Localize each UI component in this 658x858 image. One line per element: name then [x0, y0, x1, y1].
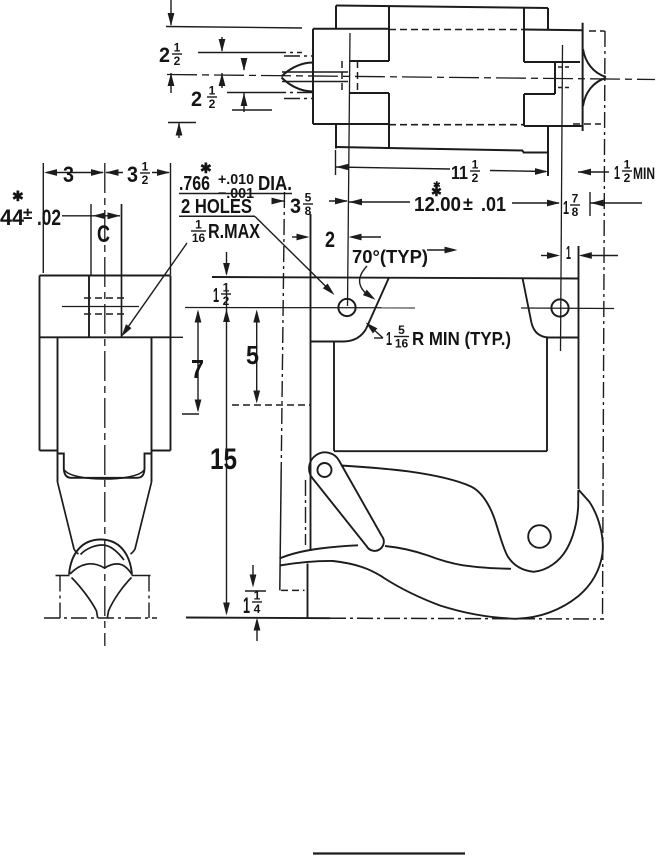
side view hole centerline horizontal [62, 306, 139, 308]
dimension 3 5/8 [275, 200, 284, 202]
dimension 11 1/2 [335, 150, 337, 175]
svg-text:16: 16 [395, 337, 409, 351]
top view left boss outline [313, 28, 389, 30]
dimension 3 and 3 1/2 [42, 163, 44, 273]
hidden line dashed at y405 [232, 404, 311, 406]
front view left edge [310, 214, 312, 551]
leader 70 deg arc [360, 266, 372, 298]
leader 1/16 R MAX [124, 243, 188, 334]
dimension 2 at top of front view [292, 236, 306, 238]
svg-text:11: 11 [451, 163, 468, 183]
svg-text:1: 1 [254, 589, 261, 603]
svg-text:3: 3 [290, 195, 301, 218]
svg-text:1: 1 [174, 41, 181, 55]
top view left hole hidden lines [341, 61, 343, 93]
left construction line dash-dot upper part [281, 192, 284, 470]
svg-text:1: 1 [195, 218, 202, 232]
side view inner walls [57, 337, 59, 482]
svg-text:1: 1 [213, 285, 219, 307]
side view taper lines [58, 482, 79, 554]
svg-text:.02: .02 [37, 205, 61, 230]
svg-text:3: 3 [127, 162, 138, 187]
side view shoulder line [40, 336, 171, 338]
svg-text:1: 1 [614, 163, 620, 183]
boss bottom edge extension left [168, 122, 196, 124]
hook eye hole [528, 525, 551, 548]
side view hook cap outer arc [69, 540, 132, 575]
label 1 5/16 R MIN TYP [374, 337, 383, 339]
svg-text:2: 2 [142, 173, 149, 187]
front view right edge [578, 246, 580, 489]
dimension 1 7/8 [589, 192, 591, 216]
svg-text:±: ± [463, 194, 473, 214]
svg-text:MIN: MIN [633, 164, 655, 183]
svg-text:1: 1 [472, 158, 479, 172]
dimension 2 1/2 upper extension line [166, 27, 302, 29]
svg-text:1: 1 [243, 593, 250, 618]
side view hook cap inner arc [81, 545, 125, 560]
svg-text:5: 5 [398, 323, 405, 337]
svg-text:15: 15 [210, 443, 237, 476]
svg-text:2: 2 [191, 88, 202, 111]
leader arrow near right ear [427, 249, 454, 251]
front view left pin hole [338, 299, 355, 316]
svg-text:7: 7 [191, 354, 204, 384]
lever arm (handle) outline [309, 452, 384, 550]
top view main body left edge segments [335, 6, 337, 30]
short phantom line left of lever [305, 480, 307, 545]
dimension 1 1/4 [252, 565, 254, 584]
side view U notch [58, 454, 152, 478]
top view horizontal centerline [167, 75, 655, 80]
front view right pin hole [551, 299, 568, 316]
svg-text:1: 1 [563, 198, 569, 218]
hook upper cam curve [341, 466, 578, 572]
side view step [40, 450, 58, 452]
side view bottom face lines [56, 575, 70, 577]
svg-text:.01: .01 [481, 194, 506, 216]
top view bottom right step [522, 151, 524, 153]
top view main body top edge [336, 6, 548, 9]
svg-text:2: 2 [325, 227, 335, 252]
top view right end vertical [582, 23, 584, 131]
dimension 2 1/2 upper arrows [170, 0, 172, 25]
leader .766 2 HOLES to hole [255, 217, 332, 293]
dimension 1 at top right [541, 255, 557, 257]
left construction line solid lower part [280, 470, 281, 590]
svg-text:2: 2 [209, 97, 216, 111]
svg-text:±: ± [23, 204, 32, 223]
top view right phantom edge dash-dot [603, 31, 606, 619]
dimension 1 1/2 MIN [578, 171, 609, 173]
svg-text:2: 2 [159, 44, 170, 67]
lower jaw left vertical edge [307, 564, 309, 618]
side view phantom verticals [59, 576, 61, 619]
svg-text:2: 2 [174, 54, 181, 68]
svg-text:R.MAX: R.MAX [208, 221, 261, 243]
right hole vertical centerline [561, 45, 563, 351]
front view right ear fillet radius [532, 323, 550, 338]
svg-text:C: C [97, 221, 110, 248]
top view right dashed bits [589, 30, 605, 32]
svg-text:8: 8 [572, 205, 579, 219]
svg-text:✱: ✱ [200, 160, 212, 176]
top view hook point profile (right end) [583, 49, 606, 77]
top view main body bottom edge [336, 147, 523, 151]
hidden line at jaw open position [281, 589, 305, 591]
svg-text:2 HOLES: 2 HOLES [181, 196, 252, 218]
svg-text:3: 3 [63, 162, 74, 187]
hook lower jaw sweep to outer edge [280, 490, 603, 619]
dimension 2 1/2 lower arrows [221, 37, 223, 51]
top view right upper step [547, 8, 549, 30]
side view hidden hole lines [84, 297, 124, 299]
svg-text:16: 16 [192, 231, 206, 245]
front view left hole centerline horizontal [185, 307, 415, 309]
svg-text:✱: ✱ [12, 188, 24, 204]
hook cam lower edge [280, 545, 359, 558]
front view top edge [212, 277, 579, 279]
svg-text:.44: .44 [0, 205, 25, 230]
svg-text:2: 2 [624, 171, 631, 185]
top view tip phantom box [284, 55, 313, 57]
front view bottom phantom edge [186, 617, 330, 620]
side view top edge [40, 275, 171, 277]
side view .44 extension line [90, 204, 92, 276]
side view outer edges [39, 276, 41, 451]
side view gull wing line [70, 564, 132, 575]
svg-text:5: 5 [246, 340, 259, 370]
svg-text:DIA.: DIA. [258, 173, 292, 195]
dimension 12.00 +- .01 [349, 199, 362, 206]
side view U notch inner line [65, 470, 145, 479]
svg-text:1: 1 [142, 160, 149, 174]
dimension 2 1/2 lower lines [198, 52, 270, 54]
svg-text:5: 5 [305, 191, 312, 205]
top view right hole hidden lines [558, 66, 572, 68]
svg-text:1: 1 [566, 243, 571, 263]
side view centerline vertical [104, 163, 106, 646]
svg-text:1: 1 [624, 158, 631, 172]
side view hook tip funnel [72, 578, 98, 619]
side view bottom phantom line [44, 617, 157, 619]
svg-text:✱: ✱ [433, 180, 441, 190]
svg-text:7: 7 [572, 192, 579, 206]
top view slot edges [350, 60, 389, 62]
front view inner cavity [333, 342, 335, 452]
side view slot walls [88, 276, 90, 338]
left hole vertical centerline [348, 33, 351, 306]
lever arm hole [318, 463, 332, 477]
front view left ear chamfer 70deg [366, 278, 389, 330]
dimension 5 [256, 312, 258, 401]
svg-text:R MIN (TYP.): R MIN (TYP.) [412, 329, 511, 349]
front view right ear chamfer 70deg [523, 278, 532, 323]
front view left ear fillet radius [344, 329, 366, 342]
top view hidden edges dashed [389, 29, 524, 31]
footer line [313, 852, 465, 854]
svg-text:70°(TYP): 70°(TYP) [352, 247, 428, 267]
svg-text:2: 2 [472, 171, 479, 185]
front view right hole centerline horizontal [521, 307, 614, 310]
dimension 7 [197, 312, 199, 410]
svg-text:1: 1 [209, 84, 216, 98]
top view hook tip (left end bullet) [282, 63, 314, 77]
top view tip slot lines [282, 71, 348, 73]
svg-text:4: 4 [254, 602, 261, 616]
svg-text:.766: .766 [179, 173, 210, 195]
svg-text:1: 1 [386, 329, 392, 349]
